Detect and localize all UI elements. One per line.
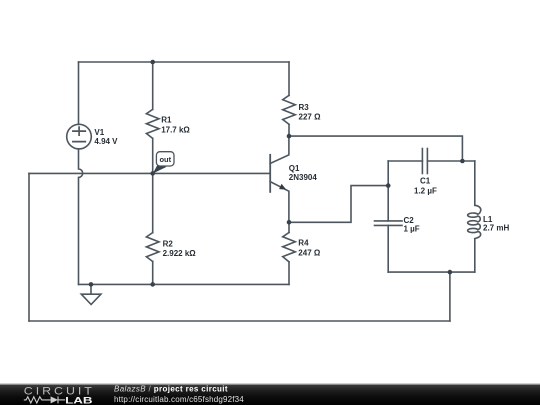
wire R4 top lead [288, 222, 290, 232]
svg-text:R2: R2 [163, 239, 174, 248]
svg-text:R1: R1 [161, 115, 172, 124]
node R2 bottom junction [150, 282, 155, 287]
wire tank left rail upper [387, 161, 389, 221]
wire V1 top [78, 62, 80, 124]
svg-text:227 Ω: 227 Ω [299, 112, 322, 121]
svg-text:C1: C1 [420, 177, 431, 186]
node collector junction [287, 134, 292, 139]
svg-text:4.94 V: 4.94 V [94, 137, 118, 146]
wire tank bottom riser [449, 272, 451, 321]
svg-text:R3: R3 [299, 103, 310, 112]
wire tank top rail left [388, 160, 422, 162]
footer bar [0, 384, 540, 385]
transistor Q1 [270, 136, 289, 222]
wire tank left rail lower [387, 225, 389, 272]
svg-text:out: out [159, 155, 171, 164]
svg-text:Q1: Q1 [289, 164, 300, 173]
svg-text:R4: R4 [298, 239, 309, 248]
svg-text:2.922 kΩ: 2.922 kΩ [163, 249, 197, 258]
svg-text:2N3904: 2N3904 [289, 173, 318, 182]
wire emitter to tank left [289, 186, 388, 223]
resistor R3 [283, 95, 296, 124]
node tank top junction [460, 159, 465, 164]
wire emitter ground rail [79, 283, 290, 285]
resistor R1 [146, 109, 159, 138]
svg-text:17.7 kΩ: 17.7 kΩ [161, 126, 190, 135]
resistor R2 [146, 233, 159, 262]
svg-text:V1: V1 [94, 128, 104, 137]
node tank bottom junction [448, 270, 453, 275]
logo symbol resistor-diode [24, 396, 65, 403]
wire bottom outer [29, 320, 450, 322]
wire V1 bottom (hops over out wire) [79, 149, 83, 285]
node emitter junction [287, 220, 292, 225]
wire R1 top lead [152, 62, 154, 109]
svg-text:1 µF: 1 µF [404, 225, 420, 234]
wire R2 top lead [152, 173, 154, 232]
node out junction [150, 171, 155, 176]
svg-text:C2: C2 [404, 216, 415, 225]
wire collector to tank top [289, 136, 462, 161]
svg-text:BalazsB / project res circuit: BalazsB / project res circuit [114, 384, 228, 393]
wire tank bottom rail [388, 271, 475, 273]
ground [81, 284, 101, 304]
svg-text:http://circuitlab.com/c65fshdg: http://circuitlab.com/c65fshdg92f34 [114, 395, 244, 404]
wire R4 bottom lead [288, 262, 290, 285]
inductor L1 [468, 205, 481, 238]
node tank left junction [386, 183, 391, 188]
wire top rail [79, 61, 290, 63]
node label out [153, 152, 174, 174]
voltage source V1 [67, 124, 92, 149]
capacitor C2 [375, 221, 403, 226]
wire R2 bottom lead [152, 262, 154, 285]
wire tank right rail upper [474, 161, 476, 205]
node ground junction [89, 282, 94, 287]
wire out node horizontal [29, 172, 270, 174]
wire R3 bottom lead [288, 124, 290, 136]
wire R3 top lead [288, 62, 290, 95]
wire R1 bottom lead [152, 138, 154, 173]
svg-text:1.2 µF: 1.2 µF [414, 186, 437, 195]
wire tank right rail lower [474, 239, 476, 272]
wire tank top rail right [427, 160, 474, 162]
svg-text:247 Ω: 247 Ω [298, 248, 321, 257]
node junction R1 top [150, 60, 155, 65]
svg-text:2.7 mH: 2.7 mH [483, 223, 509, 232]
capacitor C1 [422, 149, 427, 174]
svg-text:LAB: LAB [65, 395, 93, 405]
resistor R4 [283, 233, 296, 262]
wire left outer vertical [28, 173, 30, 321]
